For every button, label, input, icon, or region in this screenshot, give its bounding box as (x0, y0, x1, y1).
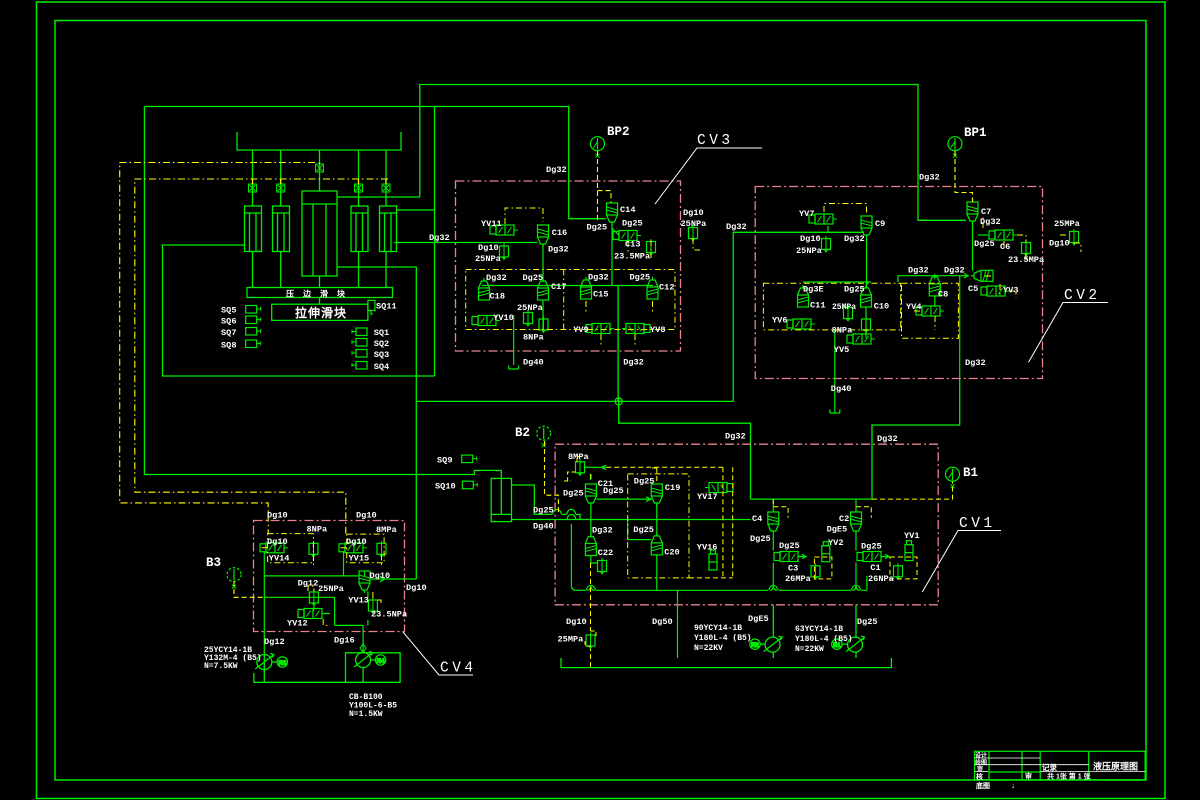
svg-text:N=22KV: N=22KV (694, 644, 723, 653)
svg-text:C6: C6 (1000, 242, 1010, 252)
pilot box YV7-C9 (824, 204, 867, 215)
svg-text:N=1.5KW: N=1.5KW (349, 710, 383, 719)
svg-text:C5: C5 (968, 284, 978, 294)
svg-text:SQ3: SQ3 (374, 350, 389, 360)
svg-text:Dg12: Dg12 (298, 579, 319, 589)
filter tank unit (491, 478, 511, 521)
pilot box CV3 row (466, 208, 700, 345)
wire cyl feed center (319, 150, 321, 191)
svg-text:C10: C10 (874, 302, 889, 312)
svg-text:Dg10: Dg10 (346, 537, 367, 547)
pilot YV15 drop (339, 548, 382, 566)
pilot lines CV2 (763, 204, 1081, 339)
wire YV7 stub (827, 226, 829, 232)
solenoid valve YV14 (260, 543, 288, 553)
svg-text:23.5NPa: 23.5NPa (371, 610, 407, 620)
cylinder 2 (273, 206, 290, 252)
svg-text:YV5: YV5 (834, 345, 849, 355)
svg-text:C18: C18 (490, 292, 505, 302)
pilot lines CV4 (260, 534, 384, 626)
solenoid valve YV7 (809, 214, 837, 224)
cartridge valve C5 (971, 270, 993, 281)
svg-text:C22: C22 (598, 548, 613, 558)
wire C10 drain (865, 307, 867, 338)
pilot stub center (319, 163, 321, 165)
pilot YV3 C5 (985, 276, 1016, 298)
svg-text:Dg25: Dg25 (634, 477, 655, 487)
pilot C4 box (773, 499, 788, 518)
svg-text:YV14: YV14 (269, 554, 290, 564)
svg-text:YV2: YV2 (828, 538, 843, 548)
cylinder main (302, 191, 337, 276)
svg-text:Dg32: Dg32 (844, 234, 865, 244)
wire top loop C7 (420, 85, 966, 221)
svg-text:Dg10: Dg10 (800, 234, 821, 244)
wire cyl feed 2 (280, 150, 282, 206)
solenoid valve YV3 (981, 286, 1009, 296)
hop Dg25 crossing (553, 509, 562, 514)
svg-text:记录: 记录 (1042, 762, 1058, 772)
solenoid valve YV8 (622, 324, 650, 334)
relief valve Dg10 25NPa right (689, 225, 698, 241)
svg-text:YV4: YV4 (906, 302, 921, 312)
cartridge valve C19 (651, 484, 662, 506)
wire cyl feed 5 (385, 150, 387, 206)
wire M1 riser (855, 605, 857, 658)
cartridge valve C22 flipped (585, 534, 596, 556)
svg-text:8NPa: 8NPa (307, 525, 328, 535)
relief valve 8NPa row (539, 317, 548, 333)
svg-text:C11: C11 (810, 301, 825, 311)
pilot YV13 relief (373, 592, 381, 606)
limit switch SQ9 (462, 455, 477, 463)
svg-text:Dg40: Dg40 (523, 358, 544, 368)
wire C7 to C6 (978, 234, 988, 236)
svg-text:Dg25: Dg25 (630, 273, 651, 283)
node junction (615, 397, 624, 405)
cartridge valve C10 (861, 285, 872, 307)
wire CV1 drain (571, 514, 867, 590)
svg-text:Dg10: Dg10 (356, 511, 377, 521)
solenoid valve C13 (613, 231, 641, 241)
wire CV3 row header (482, 285, 653, 287)
svg-text:Dg10: Dg10 (267, 511, 288, 521)
wire drain ends (571, 585, 859, 590)
svg-text:23.5MPa: 23.5MPa (614, 252, 650, 262)
pilot 8MPa drain (564, 472, 576, 481)
solenoid valve C1 (857, 552, 885, 562)
limit switch SQ8 (246, 340, 261, 348)
pilot box CV2 row right (902, 283, 959, 338)
cartridge valve C21 (585, 484, 596, 506)
limit switch SQ10 (462, 481, 477, 489)
valve YV16 (709, 550, 717, 570)
svg-text:25NPa: 25NPa (517, 303, 543, 313)
svg-text:C16: C16 (552, 228, 567, 238)
svg-text:Dg25: Dg25 (750, 534, 771, 544)
svg-text:25NPa: 25NPa (681, 219, 707, 229)
wire C14 column (611, 222, 613, 286)
svg-text:Dg25: Dg25 (633, 525, 654, 535)
leader CV1 (922, 531, 1001, 593)
svg-text:Dg10: Dg10 (370, 571, 391, 581)
svg-text:YV15: YV15 (349, 554, 370, 564)
wire CV1 drain out (677, 590, 679, 658)
svg-text:Dg25: Dg25 (533, 506, 554, 516)
svg-text:8MPa: 8MPa (376, 525, 397, 535)
svg-text:25MPa: 25MPa (832, 303, 856, 312)
pump M3 (255, 654, 274, 670)
relief valve 8MPa cv4 (377, 541, 386, 557)
wire C20 feed (628, 520, 651, 540)
limit switch SQ11 (368, 300, 375, 314)
motor M2 (750, 639, 765, 649)
svg-text:液压原理图: 液压原理图 (1093, 761, 1138, 772)
wire YV13 out (367, 591, 369, 597)
pilot relief Dg12 (308, 586, 314, 592)
cartridge valve C4 (768, 512, 779, 534)
svg-text:Dg10: Dg10 (406, 583, 427, 593)
node press port X center (316, 164, 324, 172)
cartridge valve C9 (861, 216, 872, 238)
cartridge valve C18 (479, 278, 490, 300)
limit switch SQ6 (246, 316, 261, 324)
pilot C21 stub (591, 468, 657, 481)
tank CV2 Dg40 (830, 410, 840, 414)
svg-text:Dg40: Dg40 (533, 522, 554, 532)
svg-text:YV13: YV13 (348, 596, 369, 606)
svg-text:90YCY14-1B: 90YCY14-1B (694, 624, 742, 633)
relief valve 25MPa bottom (586, 633, 595, 649)
wire YV13 drain (367, 620, 369, 625)
wire press drain riser (434, 106, 436, 376)
svg-text:Dg32: Dg32 (548, 245, 569, 255)
wire C5 header (898, 273, 968, 282)
svg-text:26NPa: 26NPa (868, 574, 894, 584)
wire top bracket (237, 132, 401, 150)
wire press left port (163, 245, 435, 376)
svg-text:CV3: CV3 (697, 133, 734, 149)
relief valve 25MPa mid (844, 305, 853, 321)
cartridge valve C12 (647, 277, 658, 299)
pilot stub c2 (280, 179, 282, 184)
wire slide stem (319, 298, 321, 305)
wire C8 drain (934, 296, 936, 307)
svg-text:SQ5: SQ5 (221, 306, 236, 316)
svg-text:C2: C2 (839, 514, 849, 524)
wire C4 hang (772, 499, 774, 512)
valve block CV3 enclosure (456, 181, 681, 351)
gauge B3 (227, 568, 241, 589)
svg-text:23.5MPa: 23.5MPa (1008, 255, 1044, 265)
wire C7 column (972, 223, 974, 271)
pilot line B press (135, 179, 388, 534)
pilot stub c1 (252, 179, 254, 184)
pilot YV2 box (814, 557, 832, 579)
cartridge valve C14 (607, 203, 618, 225)
svg-text:Dg32: Dg32 (980, 217, 1001, 227)
motor M3 (272, 657, 288, 667)
svg-text:C4: C4 (752, 514, 762, 524)
pump M2 (764, 636, 783, 652)
svg-text:Dg32: Dg32 (908, 266, 929, 276)
svg-text:26MPa: 26MPa (785, 574, 811, 584)
wire 8MPa link (585, 465, 606, 480)
pilot box CV2 row left (763, 283, 900, 330)
wire C22 relief stub (591, 556, 597, 564)
tank CV3 Dg40 (509, 366, 519, 370)
gauge B1 (946, 467, 960, 488)
limit switch SQ4 (352, 362, 367, 370)
pump M4 (354, 652, 373, 668)
wire CV1 right header (751, 498, 873, 500)
pilot 8MPa to YV17 (606, 466, 723, 468)
cylinder 5 (380, 206, 397, 252)
pilot B3 (234, 581, 264, 597)
svg-text:Dg32: Dg32 (726, 222, 747, 232)
svg-text:审: 审 (1025, 772, 1032, 781)
wire filter out Dg25 (512, 485, 553, 514)
valve block CV1 enclosure (555, 444, 938, 605)
pilot B2 (545, 441, 559, 513)
svg-text:8NPa: 8NPa (523, 333, 544, 343)
svg-text:Dg32: Dg32 (546, 165, 567, 175)
svg-text:63YCY14-1B: 63YCY14-1B (795, 625, 843, 634)
pilot YV1 box (890, 557, 917, 579)
svg-text:SQ8: SQ8 (221, 340, 236, 350)
svg-text:C9: C9 (875, 219, 885, 229)
svg-text:Y180L-4 (B5): Y180L-4 (B5) (694, 634, 752, 643)
svg-text:YV16: YV16 (697, 543, 718, 553)
svg-text:Dg25: Dg25 (861, 542, 882, 552)
beam draw slide (272, 304, 368, 320)
wire rod 1 (252, 252, 254, 288)
svg-text:CV2: CV2 (1064, 288, 1101, 304)
relief valve 26MPa (811, 563, 820, 579)
pilot YV9 YV8 drops (586, 301, 653, 345)
svg-text:C14: C14 (620, 205, 635, 215)
cartridge valve C20 flipped (651, 533, 662, 555)
svg-text:Dg32: Dg32 (486, 273, 507, 283)
svg-text:底图: 底图 (976, 781, 990, 790)
wire C1 out (881, 554, 889, 558)
relief valve 25NPa YV7 (822, 236, 831, 252)
svg-text:Dg32: Dg32 (588, 273, 609, 283)
svg-text:C20: C20 (664, 548, 679, 558)
wire cyl feed 4 (358, 150, 360, 206)
svg-text:SQ2: SQ2 (374, 339, 389, 349)
svg-text:25MPa: 25MPa (558, 635, 584, 645)
pump M1 (846, 636, 865, 652)
relief valve 8NPa cv2 (862, 317, 871, 333)
wire M3 riser (263, 655, 265, 673)
relief valve 23.5MPa CV2 (1022, 240, 1031, 256)
svg-text:BP1: BP1 (964, 126, 987, 140)
wire M2 riser (772, 605, 774, 658)
svg-text:SQ1: SQ1 (374, 328, 389, 338)
svg-text:YV8: YV8 (650, 325, 665, 335)
limit switch SQ1 (352, 328, 367, 336)
cartridge valve C15 (581, 277, 592, 299)
svg-text:Dg32: Dg32 (592, 526, 613, 536)
wire M4 frame (346, 653, 401, 683)
svg-text:N=7.5KW: N=7.5KW (204, 662, 238, 671)
pilot YV17 box (689, 467, 733, 578)
motor M4 (360, 644, 386, 665)
wire C8 link (934, 276, 936, 279)
solenoid valve YV17 (705, 483, 733, 493)
pilot box YV14 (268, 534, 314, 563)
svg-text:SQ9: SQ9 (437, 456, 452, 466)
pilot 25MPa bottom box (585, 631, 596, 646)
wire press return (337, 267, 416, 579)
pilot C6 drops (983, 216, 1026, 262)
relief valve 25NPa (YV11) (500, 244, 509, 260)
svg-text:Dg25: Dg25 (857, 617, 878, 627)
wire rod 4 (358, 252, 360, 288)
pilot Dg10 right drop (693, 238, 700, 250)
svg-text:Dg25: Dg25 (563, 489, 584, 499)
wire relief Dg12 drop (314, 604, 330, 614)
svg-text:YV6: YV6 (772, 316, 787, 326)
svg-text:YV12: YV12 (287, 619, 308, 629)
wire left loop to filter (144, 107, 501, 479)
svg-text:YV3: YV3 (1003, 286, 1018, 296)
svg-text:Dg10: Dg10 (1049, 239, 1070, 249)
cartridge valve C7 (967, 202, 978, 224)
wire C9 column (866, 238, 868, 288)
svg-text:Dg10: Dg10 (478, 243, 499, 253)
solenoid valve YV4 (916, 306, 944, 316)
gauge B2 (537, 426, 551, 447)
wire M4 down (362, 668, 364, 683)
leader CV2 (1029, 303, 1109, 363)
wire Dg16 riser (335, 597, 364, 652)
cartridge valve YV13 (359, 571, 370, 593)
wire CV3 drain to node (617, 286, 619, 402)
pilot YV4 drop (912, 311, 935, 330)
svg-text:YV17: YV17 (697, 492, 718, 502)
wire C2 column (855, 534, 857, 585)
svg-text:Dg32: Dg32 (965, 358, 986, 368)
svg-text:C7: C7 (981, 207, 991, 217)
gauge BP2 (591, 137, 605, 158)
solenoid valve YV5 (847, 334, 875, 344)
wire rod 2 (280, 252, 282, 288)
pilot box C19 C20 (628, 474, 689, 578)
svg-text:共 1张 第 1 张: 共 1张 第 1 张 (1047, 772, 1092, 781)
wire Dg25 hop segment (562, 514, 580, 519)
relief valve 8MPa (576, 459, 585, 475)
wire press to C16 (394, 242, 538, 244)
solenoid valve C3 (774, 552, 802, 562)
title block frame (975, 751, 1146, 779)
wire CV4 bus (254, 673, 400, 682)
relief valve 23.5NPa (368, 598, 377, 614)
cylinder 1 (245, 206, 262, 252)
pilot box YV11-C16 (505, 208, 543, 224)
svg-text:Dg32: Dg32 (919, 173, 940, 183)
wire cyl feed 1 (252, 150, 254, 206)
svg-text:YV11: YV11 (481, 219, 502, 229)
title block white rules (975, 757, 1041, 759)
wire CV2 row header (803, 282, 871, 288)
svg-text:C17: C17 (551, 282, 566, 292)
svg-text:B1: B1 (963, 466, 978, 480)
pilot YV14 drop (260, 548, 314, 566)
svg-text:Dg25: Dg25 (587, 223, 608, 233)
node press port X 2 (277, 184, 285, 192)
hop drain3 (852, 585, 861, 590)
cartridge valve C2 (851, 512, 862, 534)
svg-text:N=22KW: N=22KW (795, 645, 824, 654)
svg-text:DgE5: DgE5 (827, 525, 848, 535)
svg-text:Dg25: Dg25 (844, 285, 865, 295)
svg-text:Dg50: Dg50 (652, 617, 673, 627)
leader CV3 (655, 148, 762, 204)
svg-text:SQ4: SQ4 (374, 362, 389, 372)
wire Dg40 main (512, 519, 751, 521)
node press port X 4 (355, 184, 363, 192)
wire CV3 Dg40 drain (513, 315, 515, 365)
svg-text:Dg12: Dg12 (264, 637, 285, 647)
svg-text:CV1: CV1 (959, 516, 996, 532)
pilot BP2 (598, 151, 612, 222)
svg-text:DgE5: DgE5 (748, 614, 769, 624)
svg-text:Dg3E: Dg3E (803, 285, 824, 295)
solenoid valve YV6 (787, 319, 815, 329)
node press port X 1 (249, 184, 257, 192)
relief valve C22 small (598, 558, 607, 574)
svg-text:YV1: YV1 (904, 531, 919, 541)
svg-text:8NPa: 8NPa (832, 326, 853, 336)
svg-text:核: 核 (976, 772, 983, 781)
svg-text:M4: M4 (377, 658, 385, 665)
valve block CV2 enclosure (755, 187, 1042, 379)
cartridge valve C11 (798, 285, 809, 307)
wire M3 down (263, 670, 265, 683)
pilot YV12 link (323, 619, 330, 625)
beam blank-holder slide (247, 288, 393, 298)
svg-text:Dg10: Dg10 (566, 617, 587, 627)
svg-text:拉伸滑块: 拉伸滑块 (295, 305, 347, 320)
wire YV13 check out (365, 571, 417, 582)
pilot 8MPa top (577, 457, 583, 463)
hop Dg25 crossing2 (567, 509, 576, 514)
svg-text:8MPa: 8MPa (568, 452, 589, 462)
cylinder 4 (351, 206, 368, 252)
svg-text:Dg25: Dg25 (974, 239, 995, 249)
svg-text:M2: M2 (751, 642, 759, 649)
solenoid valve YV12 (298, 609, 326, 619)
wire CV2 return to CV1 (872, 378, 960, 500)
svg-text:Dg40: Dg40 (831, 384, 852, 394)
svg-text:设计: 设计 (975, 752, 987, 760)
wire CV2 Dg40 (834, 330, 836, 413)
svg-text:SQ11: SQ11 (376, 302, 397, 312)
wire C2 hang (855, 499, 857, 512)
gauge BP1 (948, 137, 962, 158)
pilot stub c4 (358, 179, 360, 184)
cartridge valve C17 (538, 278, 549, 300)
valve block CV4 enclosure (254, 521, 405, 632)
relief valve 26NPa (894, 563, 903, 579)
wire C19 column (656, 504, 658, 537)
limit switch SQ5 (246, 306, 261, 314)
leader CV4 (403, 632, 473, 675)
relief valve Dg12 (309, 590, 318, 606)
wire big cyl cap link (337, 196, 420, 198)
